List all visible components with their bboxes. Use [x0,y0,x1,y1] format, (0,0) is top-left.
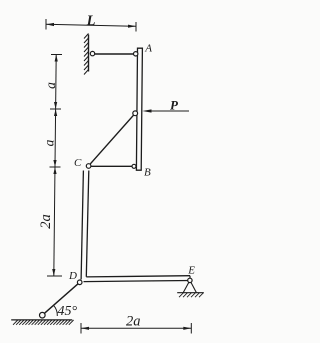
svg-text:45°: 45° [58,304,78,319]
svg-text:C: C [74,157,82,169]
svg-text:L: L [86,13,96,29]
svg-text:a: a [41,139,56,146]
svg-text:D: D [68,270,77,282]
svg-text:E: E [187,265,195,277]
svg-text:A: A [144,43,152,55]
svg-text:a: a [43,82,58,89]
svg-text:2a: 2a [38,214,54,229]
svg-text:2a: 2a [126,314,141,330]
svg-text:B: B [144,167,151,179]
svg-text:P: P [170,98,179,113]
